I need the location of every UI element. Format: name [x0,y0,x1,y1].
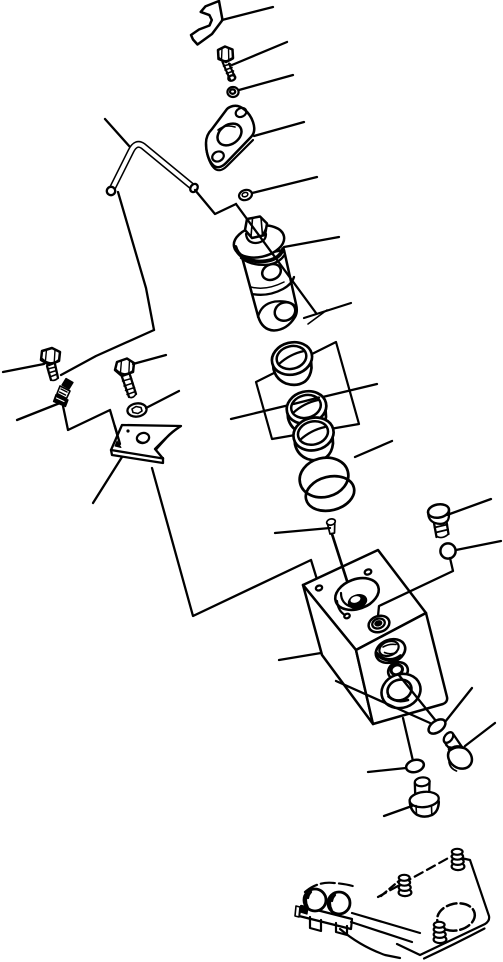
port on top face [366,613,391,635]
washer W2 [238,188,254,202]
spring bolt 2 [399,889,412,896]
arm lines to plate [352,913,420,933]
bolt B1 shaft w/ threads [223,62,236,80]
seal plate [256,342,359,439]
leader L4 (gasket) [254,122,304,136]
top face hole 3 [344,613,351,619]
bracket plate [111,425,181,459]
leader L3 (washer N1) [239,75,293,90]
ball leader right [456,541,501,550]
body bottom face ellipse [258,301,296,317]
figure-8 retaining port: small loop [386,659,411,682]
bolt D (lower right) [444,735,462,752]
gasket hole bottom [211,150,226,164]
grease fitting leader [17,403,60,420]
bolt B leader [133,355,166,364]
figure-8: big loop [377,668,426,713]
left unit tabs [310,917,347,935]
pin leader (left) [275,528,330,533]
ring 1 [273,360,312,385]
mounting plate (dashed) [378,856,452,897]
assembled valve: left unit base [299,906,352,929]
gasket thickness edge [206,140,253,170]
leader a2 along block [336,681,430,723]
bracket thickness [111,450,163,463]
vertical leader to oval 2 [403,718,413,761]
nut on top [245,217,267,239]
gasket center bore [213,119,245,150]
O-ring leader [355,441,392,457]
bolt A head [41,348,60,365]
bracket leader A [93,457,122,503]
left unit knob 1 [304,889,326,911]
leader L6 (cylinder) [284,237,339,247]
hose tube [111,144,194,191]
bolt A shaft [47,364,58,380]
dome boss on top [331,572,383,615]
ball [440,543,455,558]
bolt B1 head [218,47,233,63]
ball leader to port [378,558,453,616]
O-ring (big, torus) [295,453,352,503]
left unit knob 2 [328,892,350,914]
flange underside band [236,247,284,262]
body mid seam [252,277,294,295]
bracket triangle to block [152,468,319,616]
leader L1 (clip) [222,7,273,20]
nut collar [246,234,266,243]
leader L2 (bolt B1) [232,42,287,65]
gasket plate [206,106,254,167]
gasket hole top [234,106,248,118]
valve block top face [303,550,426,650]
plug leader [447,499,491,515]
rings leader (through ring 2) [231,384,377,419]
bolt B shaft [122,375,136,397]
left unit top arc [305,883,356,892]
hose leader (top-left) [105,119,130,147]
zigzag Z2 tail over bracket [115,426,120,444]
top face hole 2 [364,568,372,575]
valve block left face [303,585,373,724]
leader from 8 to oval tick [398,674,436,721]
bottom plug hex flange [410,797,439,817]
grease fitting [62,379,73,390]
long diagonal witness line [236,204,316,313]
oval tick leader b [445,688,472,722]
cylinder body [242,250,297,331]
witness tick 2 [308,310,327,324]
hose right end cap [189,182,200,193]
leader L5 (washer W2) [252,177,317,193]
rings leader visible through ring 2 hole [294,398,320,405]
ring 3 [294,436,333,461]
zigzag S1 from hose left end [118,192,154,330]
spring bolt 1 [452,863,465,870]
bottom plug cap [415,781,430,794]
flange ellipse [231,221,287,262]
hex plug (top right) [427,503,450,520]
oval tick [426,716,448,736]
washer W3 leader [146,391,179,408]
oval 2 [405,758,425,774]
bracket hole [136,432,151,445]
ring 2 [287,409,326,434]
bottom plug leader [384,806,412,816]
block corner leader [279,653,321,660]
bolt D leader [465,723,495,746]
dashed leader to spring [381,880,400,896]
plate hole [435,900,478,934]
pin / rod [326,518,336,526]
left unit end details [301,906,309,915]
witness tick 1 [304,303,351,318]
oval 2 left leader [368,768,406,772]
zigzag Z2 [63,406,120,444]
washer W3 [127,402,148,418]
hose left end cap [107,187,115,195]
bolt A leader [3,364,44,372]
bolt B head [115,359,134,377]
upper oval hole [260,261,284,283]
bracket clip (top) [191,1,223,45]
hose right leader to corner [195,190,236,214]
lower oval hole [272,299,299,324]
spring bolt 3 [434,936,447,943]
bracket dot [126,429,129,432]
valve block front face [356,613,447,724]
seal ring port on front face [372,635,409,667]
top face hole 1 [315,585,323,592]
zigzag S2 to grease fitting [61,330,154,375]
washer N1 [227,87,238,97]
